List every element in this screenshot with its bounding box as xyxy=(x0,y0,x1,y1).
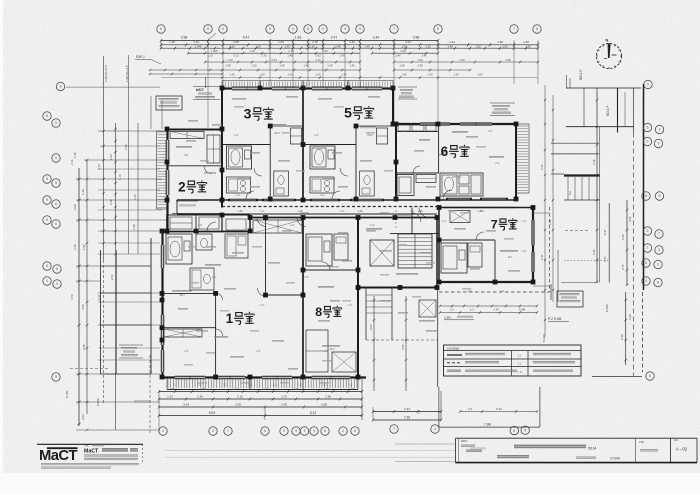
unit7 kitchen xyxy=(468,243,482,267)
svg-text:6: 6 xyxy=(55,202,57,206)
unit1 door arcs xyxy=(216,218,306,337)
svg-text:NO.: NO. xyxy=(674,439,679,442)
left dashed boundary lower xyxy=(149,355,151,435)
unit3 kitchen counter xyxy=(227,177,251,193)
svg-text:2: 2 xyxy=(659,128,661,132)
svg-text:9: 9 xyxy=(46,198,48,202)
north-west stub verticals xyxy=(151,77,206,129)
svg-text:6: 6 xyxy=(649,374,651,378)
unit8 bath module xyxy=(306,234,332,266)
annotation EXP.J upper-left xyxy=(135,55,152,60)
dimension chain top line 2 xyxy=(160,40,539,46)
svg-text:3: 3 xyxy=(658,248,660,252)
company name block xyxy=(84,444,138,460)
bottom block top wall xyxy=(162,218,437,232)
svg-text:6: 6 xyxy=(55,222,57,226)
svg-text:MaCT: MaCT xyxy=(39,448,77,464)
structural columns xyxy=(160,86,536,380)
unit7 south wall xyxy=(439,281,533,283)
unit7 east wall xyxy=(531,207,534,282)
grid bubbles right column xyxy=(642,123,664,286)
dimension sub-chain top line 4 xyxy=(187,49,439,55)
bottom dim line 1 xyxy=(158,387,363,393)
svg-text:A - 02: A - 02 xyxy=(676,447,688,452)
left band extra stubs xyxy=(98,146,162,360)
unit7 closet xyxy=(450,211,470,223)
east parking north row xyxy=(566,88,641,133)
east thin verticals below unit7 xyxy=(557,250,559,302)
unit8 kitchen xyxy=(334,234,348,260)
common corridor xyxy=(172,200,516,214)
bottom block south wall xyxy=(162,376,366,379)
svg-text:5: 5 xyxy=(55,181,57,185)
svg-text:2014: 2014 xyxy=(588,447,596,451)
unit7 north wall xyxy=(439,207,533,209)
unit5 wc room xyxy=(360,171,375,196)
left dimension vertical line 3 xyxy=(102,56,105,404)
balcony south of units 1-8 xyxy=(167,378,358,390)
type box E-type xyxy=(557,291,583,307)
svg-text:DWG: DWG xyxy=(461,439,467,443)
title block project name xyxy=(466,438,688,462)
unit7 balcony dashed east xyxy=(439,207,550,292)
unit8 texts xyxy=(318,286,340,351)
room label 1-gou-shitsu (room1) xyxy=(226,311,255,326)
north-east short verticals xyxy=(567,75,571,88)
left dimension vertical line 4 xyxy=(114,123,117,430)
svg-text:9: 9 xyxy=(46,218,48,222)
bottom dim right part xyxy=(372,391,442,422)
svg-text:8: 8 xyxy=(56,267,58,271)
unit6 door arcs xyxy=(413,148,452,199)
room label 7-gou-shitsu (room7) xyxy=(491,217,517,231)
svg-text:KK: KK xyxy=(85,444,89,448)
svg-text:5: 5 xyxy=(55,121,57,125)
unit5 entry door arc xyxy=(332,168,348,199)
site boundary line east xyxy=(643,84,644,372)
unit6 north closet row xyxy=(396,125,438,132)
unit3 wc room xyxy=(274,171,289,196)
inner dim vertical B xyxy=(401,296,407,391)
unit5 interior partition horizontal xyxy=(303,144,356,146)
room label 5-gou-shitsu (room5) xyxy=(344,104,374,120)
elevator xyxy=(370,240,394,266)
svg-text:6: 6 xyxy=(60,85,62,89)
unit6 interior partition vertical xyxy=(438,124,440,173)
entrance core east wall xyxy=(436,217,438,288)
underlined note parking-2 xyxy=(548,317,569,322)
svg-text:1=200: 1=200 xyxy=(610,457,620,461)
unit2 north closet row xyxy=(170,132,204,139)
unit1 interior partitions xyxy=(162,218,303,378)
refuse store box xyxy=(419,300,436,322)
grid axis verticals dropping into plan xyxy=(208,41,538,128)
left dimension vertical line 1 xyxy=(77,168,80,426)
unit1 west wall xyxy=(161,231,164,378)
bottom band right dims near unit7 xyxy=(459,407,538,413)
entrance lobby upper xyxy=(390,208,439,234)
dimension sub-chain left stub rows xyxy=(149,69,538,79)
balcony north of units 3 and 5 xyxy=(222,81,393,89)
svg-text:5: 5 xyxy=(46,264,48,268)
extra annotation smudges 2 xyxy=(184,106,514,384)
grid bubbles top row xyxy=(157,25,541,33)
unit5 area text xyxy=(322,126,376,180)
unit2 west wall xyxy=(166,129,169,231)
room label 8-gou-shitsu (room8) xyxy=(315,305,341,319)
bottom dim line 3 xyxy=(158,403,363,409)
east parking stalls middle xyxy=(551,88,627,285)
south window sills units 3-5-6 xyxy=(228,199,508,200)
room label 2-gou-shitsu (room2) xyxy=(178,179,207,194)
svg-text:MaCT: MaCT xyxy=(84,448,99,454)
party wall between 3 and 5 xyxy=(302,88,304,199)
left dimension vertical line 6 xyxy=(137,123,139,254)
unit7 bath module xyxy=(441,243,467,273)
svg-text:0: 0 xyxy=(657,263,659,267)
grid bubbles bottom row xyxy=(159,425,530,435)
unit8 east wall xyxy=(357,218,359,378)
room label 3-gou-shitsu (room3) xyxy=(244,105,274,121)
paper grain overlay xyxy=(62,24,648,432)
east dim vertical line B xyxy=(548,95,554,302)
unit7 door arc xyxy=(476,232,484,240)
dashed stall south line xyxy=(70,368,110,370)
unit1 wc xyxy=(196,234,212,250)
svg-text:8: 8 xyxy=(46,177,48,181)
unit6 west wall xyxy=(395,124,397,199)
unit5 kitchen counter xyxy=(310,177,334,193)
unit3 bath module xyxy=(227,146,252,169)
left dimension vertical line 2 xyxy=(86,159,89,431)
east dim vertical line A xyxy=(540,85,546,337)
svg-text:0: 0 xyxy=(55,156,57,160)
unit6 texts xyxy=(419,131,504,165)
south-east L boundary xyxy=(439,284,551,427)
logo separator line xyxy=(37,443,143,445)
bicycle note underlined xyxy=(444,316,474,320)
svg-text:7: 7 xyxy=(658,232,660,236)
unit6 west bath module xyxy=(397,175,414,196)
unit5 bath module xyxy=(310,146,335,169)
unit6 east wall xyxy=(515,124,517,199)
grid bubble east top xyxy=(644,80,652,88)
unit6 interior partition horizontal xyxy=(396,172,439,174)
svg-text:0: 0 xyxy=(46,279,48,283)
unit8 south room fixtures xyxy=(306,330,356,372)
unit2 annex door arc xyxy=(207,222,216,231)
dimension sub-chain top line 5 xyxy=(204,58,539,63)
unit8 interior partition xyxy=(303,269,358,271)
dashed separator after logo xyxy=(142,444,144,463)
unit2 interior partition xyxy=(167,165,222,167)
east parking tick marks xyxy=(596,99,629,286)
unit3 interior partition horizontal xyxy=(222,144,270,146)
entrance steps xyxy=(366,288,437,341)
unit6 center fixture cluster xyxy=(440,173,483,196)
unit2 tall closet east xyxy=(207,135,220,163)
balcony east of unit 6 xyxy=(516,124,529,193)
left parking stall block xyxy=(101,238,152,374)
east boundary dashed continuation xyxy=(633,133,635,377)
unit2 small text xyxy=(176,146,198,206)
leader line top xyxy=(207,33,216,41)
compass north arrow xyxy=(596,38,621,69)
legend table xyxy=(444,345,582,376)
unit5 inner closet xyxy=(377,128,388,144)
site line below entrance xyxy=(437,288,439,388)
east parking rotated dims xyxy=(568,159,632,270)
company footnote lines xyxy=(41,463,139,468)
type note b-type (above 3-gou) xyxy=(193,87,220,100)
entrance texts xyxy=(366,228,418,275)
unit7 west wall xyxy=(438,207,440,282)
svg-text:CHK: CHK xyxy=(639,441,644,444)
scattered dim tick text specks xyxy=(184,131,527,353)
svg-text:9: 9 xyxy=(658,142,660,146)
unit6 kitchen counter xyxy=(416,175,436,183)
corridor numbers xyxy=(238,210,483,213)
unit2 door arc xyxy=(204,166,212,174)
type note A-type (left parking) xyxy=(119,345,143,358)
title block xyxy=(456,438,698,462)
unit3 interior partition vertical xyxy=(269,126,271,199)
revision strip lines xyxy=(165,444,486,462)
unit1 second wc cluster xyxy=(190,268,214,290)
bottom dim band verticals xyxy=(159,376,362,431)
dimension sub-chain top line 6 xyxy=(221,69,471,72)
east wall unit 5 block xyxy=(392,88,394,124)
unit3 entry door arc xyxy=(246,168,262,199)
bottom dim line 4 xyxy=(158,411,363,417)
unit3 area text xyxy=(237,124,286,180)
unit1 kitchen xyxy=(225,234,248,258)
dimension chain top line 1 xyxy=(160,36,439,43)
left dimension vertical line 5 xyxy=(128,55,130,254)
unit2 north wall xyxy=(167,129,222,131)
unit7 interior partitions xyxy=(439,240,495,282)
leader line upper-left xyxy=(152,60,161,64)
east dim verticals lower xyxy=(620,292,632,365)
dimension chain top line 3 xyxy=(160,47,539,50)
unit1 north closet row xyxy=(253,220,302,233)
scattered room annotation smudges xyxy=(178,96,520,370)
svg-text:9: 9 xyxy=(659,194,661,198)
unit2 annex walls xyxy=(167,214,250,231)
svg-text:8: 8 xyxy=(657,281,659,285)
entrance core south wall xyxy=(358,287,437,289)
unit5 interior partition vertical xyxy=(355,126,357,199)
grid bubbles left column xyxy=(43,112,61,381)
unit3 inner closet xyxy=(291,128,302,144)
left stub lines xyxy=(76,131,167,430)
dimension micro text rows top band xyxy=(195,44,531,76)
svg-text:5: 5 xyxy=(46,114,48,118)
type note f-type (right of 6-gou) xyxy=(490,103,515,116)
unit7 texts xyxy=(500,250,518,259)
south-east corner line with bubble xyxy=(592,372,654,380)
south facade dim text row xyxy=(173,383,352,387)
left band extra rotated smudges xyxy=(70,159,137,350)
unit8 door arc xyxy=(322,262,330,270)
left rotated dim texts xyxy=(65,144,136,420)
stairs xyxy=(398,234,432,268)
unit6 north wall xyxy=(396,122,516,125)
type box C-type (left of plan) xyxy=(156,96,182,110)
svg-text:3: 3 xyxy=(56,282,58,286)
inner dim vertical A xyxy=(369,296,375,391)
north-west bubble and stub xyxy=(56,82,160,90)
tiny customer note xyxy=(134,401,151,403)
svg-text:9: 9 xyxy=(55,375,57,379)
bottom dim line 2 xyxy=(158,395,363,401)
south dim row below unit7 xyxy=(439,305,538,314)
type note d-type (above 6-gou) xyxy=(398,87,417,99)
room label 6-gou-shitsu (room6) xyxy=(441,144,470,159)
unit1 closet xyxy=(164,329,202,337)
MaCT logo xyxy=(39,448,78,464)
unit1 bath module xyxy=(166,234,192,264)
balcony west of unit 2 xyxy=(157,131,168,209)
vertical connector ticks top band xyxy=(161,41,538,49)
party wall units 1-8 xyxy=(302,218,304,378)
unit1 texts xyxy=(172,264,228,338)
west wall unit 3 block xyxy=(221,88,223,208)
north exterior wall units 3-5 xyxy=(222,87,393,90)
